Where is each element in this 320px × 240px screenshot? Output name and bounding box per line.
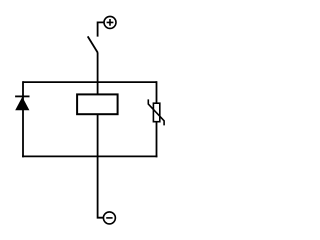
switch S1 (open contact)	[88, 36, 98, 52]
wire: switch to coil (center vertical, crosses top bus)	[97, 53, 99, 96]
relay coil K1	[77, 94, 118, 114]
wire: top bus	[23, 81, 157, 83]
wire: plus terminal to switch	[98, 22, 104, 36]
negative supply terminal	[103, 212, 115, 224]
varistor R1 (VDR: white box over wire + bent diagonal)	[148, 99, 164, 125]
diode V1 (flyback, cathode bar up, filled triangle)	[15, 96, 29, 110]
wire: left branch with diode	[22, 81, 24, 157]
wire: bottom bus	[22, 155, 157, 157]
wire: right branch with varistor	[156, 81, 158, 157]
positive supply terminal	[104, 16, 116, 28]
wire: coil to minus terminal	[98, 114, 104, 218]
